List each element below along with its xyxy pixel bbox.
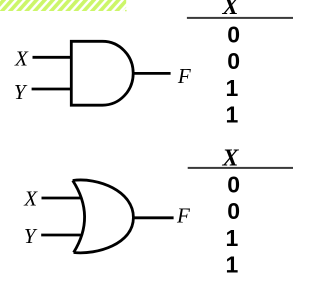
- wire: OR output: [133, 216, 174, 219]
- OR gate U2: [73, 180, 134, 253]
- svg-text:1: 1: [226, 101, 239, 127]
- svg-text:1: 1: [226, 75, 239, 101]
- wire: AND input Y: [32, 88, 72, 91]
- svg-text:F: F: [177, 64, 191, 88]
- svg-text:1: 1: [226, 251, 239, 277]
- wire: AND input X: [33, 56, 73, 59]
- truth table 2 header rule: [188, 167, 293, 169]
- wire: OR input X: [42, 197, 82, 200]
- wire: OR input Y: [41, 234, 80, 237]
- svg-text:X: X: [23, 186, 38, 210]
- svg-text:X: X: [14, 46, 29, 70]
- truth table 1 header rule: [187, 17, 293, 19]
- svg-text:0: 0: [227, 48, 240, 74]
- svg-text:F: F: [176, 204, 190, 228]
- svg-text:1: 1: [226, 225, 239, 251]
- svg-text:0: 0: [227, 22, 240, 48]
- svg-text:0: 0: [227, 172, 240, 198]
- wire: AND output: [133, 72, 171, 75]
- svg-text:0: 0: [227, 198, 240, 224]
- svg-text:X: X: [221, 146, 239, 172]
- decorative striped banner: [0, 0, 126, 11]
- svg-text:Y: Y: [24, 224, 38, 248]
- svg-text:X: X: [221, 0, 239, 20]
- AND gate U1: [71, 41, 133, 105]
- svg-text:Y: Y: [14, 80, 28, 104]
